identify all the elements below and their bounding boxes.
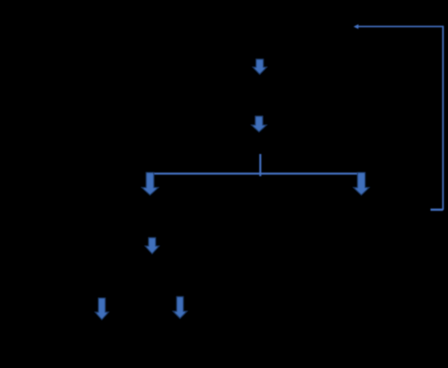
block arrow A5 (left column, pointing down) bbox=[145, 238, 159, 254]
wire: vertical stub above distribution line bbox=[259, 154, 261, 176]
node: arrowhead of feedback connector pointing left bbox=[354, 24, 359, 29]
wire: elbow connector foot bbox=[431, 209, 444, 211]
block arrow A1 (top, pointing down) bbox=[253, 59, 267, 74]
block arrow A7 (bottom middle, pointing down) bbox=[173, 297, 187, 319]
block arrow A4 (right branch, hanging from line) bbox=[354, 173, 369, 196]
block arrow A6 (bottom left, pointing down) bbox=[95, 298, 108, 320]
block arrow A2 (second, pointing down) bbox=[252, 116, 267, 132]
block arrow A3 (left branch, hanging from line) bbox=[142, 173, 158, 196]
wire: horizontal distribution line bbox=[149, 173, 362, 175]
wire: feedback elbow connector top-right bbox=[358, 27, 443, 211]
